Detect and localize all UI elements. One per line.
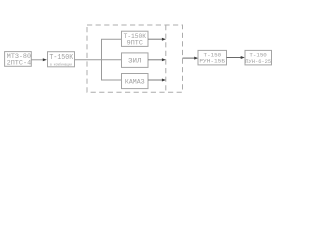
svg-text:в комбинации: в комбинации <box>50 63 72 68</box>
wire W1 from B2 to ЗИЛ <box>75 59 122 61</box>
block B4 ЗИЛ <box>122 53 149 68</box>
bus left vertical <box>101 39 103 80</box>
dashed group boundary <box>87 25 183 92</box>
wire branch to КАМАЗ <box>101 79 122 81</box>
arrow A4 from B5 to divider <box>148 79 166 82</box>
block B6 Т-150/РУН-15Б <box>198 50 227 65</box>
arrow A5 from group to РУН block <box>183 57 199 60</box>
svg-text:ЗИЛ: ЗИЛ <box>128 58 141 66</box>
wire branch to top box <box>101 38 122 40</box>
svg-text:РУН-15Б: РУН-15Б <box>199 58 225 65</box>
block B5 КАМАЗ <box>122 74 149 89</box>
svg-text:КАМАЗ: КАМАЗ <box>125 78 145 85</box>
block B2 Т-150К в комбинации <box>48 52 75 68</box>
block B7 Т-150/ПУН-6-25 <box>245 50 272 65</box>
arrow A6 from РУН to ПУН block <box>227 56 245 59</box>
svg-text:ПУН-6-25: ПУН-6-25 <box>245 59 271 65</box>
svg-text:2ПТС-4: 2ПТС-4 <box>7 59 32 66</box>
svg-text:Т-150: Т-150 <box>249 52 267 59</box>
block B1 МТЗ-80/2ПТС-4 <box>5 52 32 67</box>
svg-text:Т-150К: Т-150К <box>49 54 73 62</box>
svg-text:9ПТС: 9ПТС <box>127 40 143 47</box>
block B3 Т-150К/9ПТС <box>122 31 149 47</box>
arrow A2 from B3 to divider <box>148 38 166 41</box>
arrow A1 from B1 to B2 <box>31 58 47 61</box>
arrow A3 from B4 to divider <box>148 58 166 61</box>
dashed divider line <box>165 25 167 92</box>
